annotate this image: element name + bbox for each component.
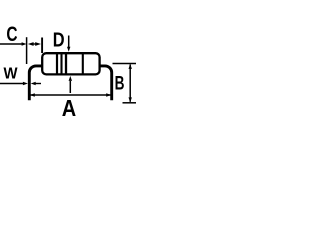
band 3 (65, 53, 67, 75)
band 4 (82, 53, 84, 75)
dim W right tail (36, 83, 42, 85)
dim C leader arrowhead (22, 42, 27, 45)
svg-text:C: C (6, 22, 17, 46)
dim B top extension line (113, 63, 137, 65)
dim C extension line 1 (26, 37, 28, 64)
dim C extension line 2 (41, 38, 43, 54)
dim B bottom extension line (123, 102, 137, 104)
svg-text:W: W (4, 65, 19, 82)
dim B line (129, 65, 131, 102)
dim A left arrowhead (30, 93, 35, 96)
band 1 (56, 53, 58, 75)
dim C leader line (0, 43, 23, 45)
dim D bottom arrow (69, 81, 71, 93)
svg-text:B: B (115, 72, 125, 94)
band 2 (60, 53, 62, 75)
dim B down arrowhead (129, 97, 132, 102)
dim D top arrow (68, 36, 70, 49)
left lead (29, 66, 42, 100)
dim W right arrowhead (31, 82, 36, 85)
dim A right arrowhead (106, 93, 111, 96)
svg-text:D: D (53, 28, 65, 51)
dim B up arrowhead (129, 64, 132, 69)
dim A line (31, 94, 111, 96)
right lead (100, 66, 112, 100)
dim W left arrowhead (23, 82, 28, 85)
component body (42, 53, 99, 74)
dim C inner double arrow (28, 42, 34, 46)
svg-text:A: A (62, 94, 77, 121)
dim W leader line (0, 83, 23, 85)
